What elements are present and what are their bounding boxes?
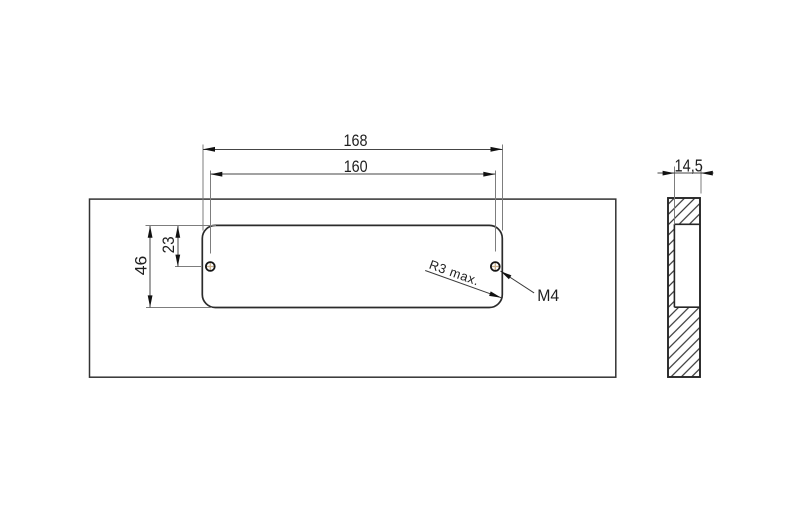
extension line 160 right [494,171,496,252]
arrow 46 top [148,226,153,238]
side view hatched body [668,198,700,377]
hole left center mark [206,262,215,271]
arrow M4 [501,271,512,279]
dimension line 23 [177,226,179,267]
extension line 168 right [502,145,504,231]
dimension line 160 [210,173,495,175]
dimension line 14,5 [658,172,714,174]
arrow 23 top [175,226,180,238]
dimension line 46 [149,226,151,308]
extension line 160 left [209,171,211,254]
svg-text:46: 46 [131,256,150,276]
arrow 168 right [491,147,503,152]
leader line R3 max [425,271,501,298]
arrow R3 [489,291,501,297]
extension line hole axis [175,266,201,268]
hole left (M4) [206,262,215,271]
svg-text:168: 168 [344,131,368,150]
svg-text:14,5: 14,5 [675,155,703,175]
svg-text:23: 23 [159,236,178,253]
panel outline (front view) [90,199,616,377]
arrow 160 left [210,172,222,177]
arrow 23 bottom [175,255,180,267]
extension line 14,5 left [674,167,676,225]
side view outline [668,198,700,377]
arrow 14,5 right [701,171,713,176]
extension line 14,5 right [700,167,702,194]
cutout rounded rectangle [202,225,502,307]
hole right center mark [491,262,500,271]
arrow 14,5 left [663,171,675,176]
extension line cutout bottom [146,307,212,309]
leader line M4 [501,271,535,293]
extension line 168 left [202,145,204,231]
svg-text:M4: M4 [537,286,559,305]
side view notch [674,224,700,307]
svg-text:160: 160 [344,157,368,176]
arrow 160 right [483,172,495,177]
hole right (M4) [491,262,500,271]
extension line cutout top [146,225,216,227]
arrow 46 bottom [148,295,153,307]
dimension line 168 [203,148,503,150]
arrow 168 left [203,147,215,152]
